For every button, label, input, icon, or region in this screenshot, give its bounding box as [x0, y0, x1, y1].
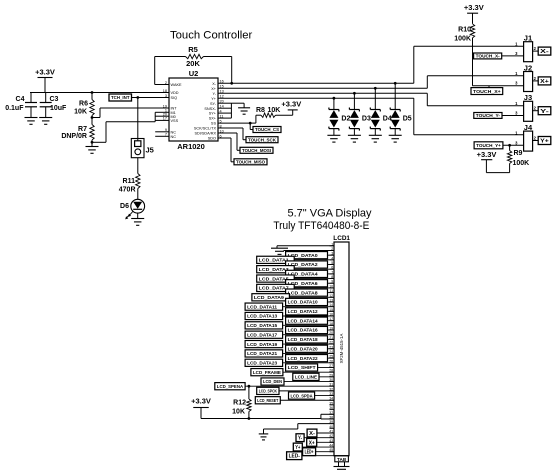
wire LCD_DATA12 — [328, 310, 335, 312]
node R12 bottom — [248, 417, 251, 420]
svg-text:LCD_DATA5: LCD_DATA5 — [259, 276, 289, 281]
svg-text:+3.3V: +3.3V — [281, 99, 301, 108]
diode D3 — [353, 92, 356, 95]
svg-text:10K: 10K — [268, 107, 281, 114]
wire J2 pin3 — [472, 85, 523, 87]
wire LCD_DATA13 — [283, 315, 334, 317]
wire LED+ (LCD) — [316, 451, 334, 453]
svg-text:TOUCH_CS: TOUCH_CS — [255, 127, 279, 132]
svg-text:VDD: VDD — [171, 91, 179, 95]
net label LCD_DATA17 — [245, 331, 283, 338]
net label LCD_DATA5 — [257, 275, 295, 282]
ground (D3) — [348, 134, 361, 136]
net label LCD_DEN — [261, 378, 284, 385]
terminal X- (J1) — [538, 47, 551, 55]
wire LCD_DEN — [284, 381, 334, 383]
svg-text:AR1020: AR1020 — [177, 142, 205, 151]
wire LCD_DATA7 — [294, 287, 334, 289]
svg-text:LCD_DATA22: LCD_DATA22 — [288, 356, 318, 361]
net label LCD_DATA11 — [245, 303, 283, 310]
svg-text:SNSX-: SNSX- — [204, 107, 216, 111]
svg-text:TOUCH_MISO: TOUCH_MISO — [236, 160, 265, 165]
wire LCD_SHIFT — [318, 366, 334, 368]
svg-text:J2: J2 — [524, 63, 532, 72]
svg-text:TOUCH_Y+: TOUCH_Y+ — [476, 143, 501, 148]
wire LCD_DATA15 — [283, 324, 334, 326]
svg-text:3: 3 — [515, 140, 518, 145]
svg-text:LED+: LED+ — [305, 450, 314, 456]
svg-text:LCD_DATA3: LCD_DATA3 — [259, 267, 289, 272]
wire X+ (LCD) — [317, 441, 334, 443]
svg-text:J4: J4 — [524, 123, 533, 132]
svg-text:3: 3 — [515, 51, 518, 56]
node R6/R7 junction — [91, 116, 94, 119]
wire LCD_DATA19 — [283, 343, 334, 345]
svg-text:C4: C4 — [16, 96, 25, 103]
wire X+ bus — [218, 87, 427, 89]
wire LCD_DATA16 — [328, 329, 335, 331]
net label LCD_DATA4 — [286, 270, 328, 277]
svg-text:+3.3V: +3.3V — [35, 68, 55, 77]
pin 2 (J1) — [533, 50, 539, 52]
svg-text:LCD_SPENA: LCD_SPENA — [217, 384, 244, 389]
svg-text:LCD_DATA8: LCD_DATA8 — [288, 290, 318, 295]
wire to J5 — [137, 98, 139, 141]
svg-text:J3: J3 — [524, 93, 532, 102]
resistor R6 — [91, 91, 94, 94]
svg-text:D5: D5 — [403, 116, 412, 123]
svg-text:LCD_DATA19: LCD_DATA19 — [247, 342, 277, 347]
connector LCD1 TAB — [335, 456, 349, 462]
node R9 tap — [508, 144, 511, 147]
svg-text:18: 18 — [163, 89, 167, 93]
svg-text:VSS: VSS — [171, 119, 179, 123]
wire TAB legs — [338, 462, 340, 467]
wire LCD_DATA21 — [283, 352, 334, 354]
net label LCD_FRAME — [251, 369, 283, 376]
wire LCD_DATA5 — [294, 278, 334, 280]
net label LCD_DATA6 — [286, 280, 328, 287]
svg-text:TCH_INT: TCH_INT — [111, 95, 130, 100]
svg-text:3: 3 — [515, 81, 518, 86]
svg-text:R6: R6 — [79, 101, 88, 108]
svg-text:J1: J1 — [524, 34, 532, 43]
svg-text:SIQ: SIQ — [171, 96, 178, 100]
svg-text:X-: X- — [212, 82, 217, 86]
svg-text:TAB: TAB — [337, 457, 347, 462]
svg-text:D4: D4 — [383, 116, 392, 123]
wire TOUCH_CS stub — [249, 123, 251, 129]
net label LCD_DATA19 — [245, 340, 283, 347]
wire R7 to VSS pins — [92, 141, 106, 143]
terminal Y- (J3) — [538, 107, 551, 115]
svg-text:3: 3 — [515, 111, 518, 116]
wire LCD_DATA0 — [328, 254, 335, 256]
terminal Y+ (J4) — [538, 137, 551, 145]
wire LCD_DATA1 — [294, 259, 334, 261]
svg-text:R9: R9 — [514, 150, 523, 157]
node J5 tap — [136, 96, 139, 99]
net label LCD_DATA13 — [245, 312, 283, 319]
ground (C3) — [39, 117, 52, 119]
wire LCD_DATA8 — [328, 292, 335, 294]
terminal X+ (J2) — [538, 77, 551, 85]
wire LCD_SPENA — [245, 385, 334, 387]
wire LCD_DATA11 — [283, 306, 334, 308]
svg-text:LCD_SHIFT: LCD_SHIFT — [288, 365, 316, 370]
svg-text:2: 2 — [534, 106, 537, 111]
ground (LCD pin39) — [259, 433, 269, 435]
svg-text:+3.3V: +3.3V — [477, 150, 497, 159]
svg-text:100K: 100K — [513, 160, 530, 167]
svg-text:SDI/SDA/RX: SDI/SDA/RX — [194, 132, 216, 136]
svg-text:LCD_DATA7: LCD_DATA7 — [259, 286, 289, 291]
resistor R8 — [261, 113, 276, 117]
svg-text:LCD_DATA14: LCD_DATA14 — [288, 318, 318, 323]
op-amp U2 body — [169, 78, 218, 141]
terminal LED- (LCD) — [287, 452, 302, 460]
wire WAKE stub — [155, 84, 169, 86]
net label TOUCH_MISO — [234, 159, 267, 165]
capacitor C4 — [30, 93, 32, 103]
svg-text:470R: 470R — [119, 186, 136, 193]
ground (R7) — [91, 142, 93, 146]
svg-text:TOUCH_X-: TOUCH_X- — [476, 54, 501, 59]
net label TOUCH_SCK — [246, 137, 278, 143]
wire J5 to R11 — [137, 158, 139, 174]
wire SCK — [218, 127, 243, 129]
svg-text:+3.3V: +3.3V — [464, 3, 484, 12]
connector J4 — [524, 131, 533, 151]
wire Y- bus — [218, 92, 427, 94]
svg-text:LED-: LED- — [289, 454, 301, 460]
connector J1 — [524, 42, 533, 62]
svg-text:SS: SS — [211, 122, 217, 126]
svg-text:Y+: Y+ — [211, 97, 217, 101]
resistor R12 — [248, 386, 250, 399]
connector LCD1 body — [334, 242, 349, 456]
net label LCD_DATA21 — [245, 350, 283, 357]
LED D6 — [131, 199, 145, 213]
svg-text:10uF: 10uF — [50, 105, 67, 112]
wire LCD_DATA10 — [328, 301, 335, 303]
node R12 tap — [248, 385, 251, 388]
wire SDI — [218, 132, 237, 134]
connector J5 — [131, 139, 144, 158]
svg-text:10K: 10K — [74, 108, 87, 115]
net label TOUCH_X+ — [471, 88, 503, 95]
diode D4 — [374, 87, 377, 90]
net label LCD_DATA22 — [286, 355, 328, 362]
svg-text:LCD_SPCK: LCD_SPCK — [259, 389, 278, 394]
svg-text:LCD1: LCD1 — [333, 235, 350, 242]
net label LCD_SPENA — [215, 383, 245, 390]
wire Y- (LCD) — [304, 437, 334, 439]
svg-text:LCD_DEN: LCD_DEN — [263, 379, 283, 384]
capacitor C3 — [45, 93, 47, 103]
net label LCD_DATA14 — [286, 317, 328, 324]
wire LCD_DATA3 — [294, 268, 334, 270]
wire NC stubs — [155, 131, 169, 133]
svg-text:SX+: SX+ — [209, 117, 217, 121]
wire Y+ riser to J4 — [413, 98, 415, 135]
net label LCD_DATA12 — [286, 308, 328, 315]
svg-text:LCD_DATA9: LCD_DATA9 — [254, 295, 284, 300]
svg-text:LCD_DATA23: LCD_DATA23 — [247, 361, 277, 366]
svg-text:LCD_DATA18: LCD_DATA18 — [288, 337, 318, 342]
svg-text:Truly TFT640480-8-E: Truly TFT640480-8-E — [273, 220, 369, 232]
node TOUCH_CS tap — [249, 122, 252, 125]
svg-text:1: 1 — [515, 41, 518, 46]
svg-text:Y+: Y+ — [295, 445, 300, 451]
wire LCD_DATA4 — [328, 273, 335, 275]
terminal X+ (LCD) — [307, 438, 317, 446]
svg-text:LCD_DATA16: LCD_DATA16 — [288, 328, 318, 333]
ground (LCD1 top) — [271, 247, 288, 249]
svg-text:Touch Controller: Touch Controller — [170, 30, 252, 42]
svg-text:TOUCH_X+: TOUCH_X+ — [473, 89, 501, 94]
wire LCD_DATA6 — [328, 282, 335, 284]
net label LCD_SHIFT — [286, 364, 318, 371]
svg-text:+3.3V: +3.3V — [191, 397, 211, 406]
net label LCD_LINE — [293, 373, 319, 380]
svg-text:TOUCH_Y-: TOUCH_Y- — [476, 113, 501, 118]
svg-text:LCD_FRAME: LCD_FRAME — [253, 370, 281, 375]
svg-text:LCD_DATA13: LCD_DATA13 — [247, 314, 277, 319]
svg-text:C3: C3 — [50, 96, 59, 103]
svg-text:D2: D2 — [341, 116, 350, 123]
net label LCD_DATA1 — [257, 256, 295, 263]
net label LCD_DATA23 — [245, 359, 283, 366]
wire X- (LCD) — [317, 432, 334, 434]
wire LCD_DATA17 — [283, 334, 334, 336]
svg-text:1: 1 — [515, 101, 518, 106]
ground (D6) — [131, 218, 144, 220]
svg-text:X-: X- — [309, 431, 315, 437]
svg-text:TOUCH_MOSI: TOUCH_MOSI — [242, 148, 271, 153]
svg-text:TOUCH_SCK: TOUCH_SCK — [248, 137, 277, 142]
svg-text:D3: D3 — [362, 116, 371, 123]
svg-text:NC: NC — [171, 135, 177, 139]
diode D5 — [394, 82, 397, 85]
net label TOUCH_CS — [253, 127, 281, 133]
connector J2 — [524, 72, 533, 92]
wire VSS bracket — [155, 111, 169, 113]
svg-text:Y-: Y- — [213, 92, 217, 96]
svg-text:R11: R11 — [123, 178, 136, 185]
wire Y- riser to J3 — [426, 93, 428, 106]
wire TCH_INT to SIQ pin — [132, 97, 170, 99]
net label TOUCH_Y- — [474, 113, 502, 119]
svg-text:Y-: Y- — [540, 109, 549, 115]
wire LCD_DATA22 — [328, 357, 335, 359]
net label LCD_DATA10 — [286, 298, 328, 305]
wire LED- (LCD) — [302, 455, 334, 457]
ground (D2) — [327, 134, 340, 136]
wire R6 junction to INT pin — [92, 117, 100, 119]
net label TOUCH_X- — [474, 53, 502, 59]
net label LCD_DATA3 — [257, 266, 295, 273]
svg-text:3: 3 — [165, 94, 167, 98]
wire LCD_DATA20 — [328, 348, 335, 350]
wire SNS bracket — [218, 102, 231, 104]
net label LCD_RESET — [255, 397, 280, 404]
svg-text:5.7" VGA Display: 5.7" VGA Display — [288, 208, 372, 220]
svg-text:40: 40 — [329, 425, 333, 429]
net label LCD_DATA15 — [245, 322, 283, 329]
net label LCD_SPCK — [257, 387, 279, 394]
svg-text:XF2M-4515-1A: XF2M-4515-1A — [339, 334, 344, 364]
svg-text:D6: D6 — [120, 203, 129, 210]
wire pin39 to gnd — [298, 423, 334, 425]
terminal X- (LCD) — [307, 429, 317, 437]
net label LCD_DATA20 — [286, 345, 328, 352]
svg-text:R8: R8 — [256, 107, 265, 114]
net label TOUCH_MOSI — [240, 147, 273, 153]
net label LCD_DATA18 — [286, 336, 328, 343]
svg-text:R5: R5 — [188, 45, 198, 54]
svg-text:R10: R10 — [458, 26, 471, 33]
net label LCD_DATA0 — [286, 252, 328, 259]
ground (TAB) — [334, 466, 350, 468]
wire J4 pin3 — [503, 144, 524, 146]
svg-text:LCD_DATA21: LCD_DATA21 — [247, 351, 277, 356]
wire LCD_FRAME — [283, 371, 334, 373]
svg-text:SCK/SCL/TX: SCK/SCL/TX — [194, 127, 217, 131]
svg-text:LCD_DATA15: LCD_DATA15 — [247, 323, 277, 328]
resistor R9 — [509, 145, 511, 150]
svg-text:2: 2 — [534, 76, 537, 81]
wire +3.3V rail to pins 37-38 — [201, 418, 321, 420]
ground (C4) — [25, 117, 38, 119]
svg-text:LCD_DATA17: LCD_DATA17 — [247, 332, 277, 337]
resistor R11 — [136, 174, 140, 189]
svg-text:LCD_DATA10: LCD_DATA10 — [288, 300, 318, 305]
diode D2 — [333, 97, 336, 100]
svg-text:U2: U2 — [189, 69, 199, 78]
wire J1 pin3 — [502, 55, 524, 57]
net label LCD_DATA8 — [286, 289, 328, 296]
wire X+ riser to J2 — [426, 76, 428, 89]
wire LCD_DATA14 — [328, 320, 335, 322]
wire J3 pin3 — [502, 115, 524, 117]
svg-text:Y-: Y- — [298, 436, 302, 442]
wire LCD_DATA2 — [328, 264, 335, 266]
svg-text:10K: 10K — [232, 409, 245, 416]
svg-text:36: 36 — [329, 406, 333, 410]
wire SS to R8 — [218, 122, 250, 124]
net label LCD_SPDA — [289, 392, 315, 399]
wire SDO — [218, 137, 231, 139]
svg-text:LCD_DATA20: LCD_DATA20 — [288, 346, 318, 351]
wire LCD pins 1-2 gnd — [277, 245, 334, 247]
ground (D4) — [369, 134, 382, 136]
resistor R10 — [470, 24, 474, 38]
pin 2 (J2) — [533, 80, 539, 82]
svg-text:X+: X+ — [309, 440, 315, 446]
svg-text:R7: R7 — [78, 126, 87, 133]
svg-text:LCD_LINE: LCD_LINE — [295, 375, 317, 380]
svg-text:LCD_RESET: LCD_RESET — [257, 398, 278, 403]
terminal Y- (LCD) — [296, 434, 304, 442]
svg-text:R12: R12 — [233, 400, 246, 407]
svg-text:2: 2 — [534, 136, 537, 141]
wire X- bus — [218, 82, 414, 84]
svg-text:LCD_DATA1: LCD_DATA1 — [259, 258, 289, 263]
pin 2 (J4) — [533, 140, 539, 142]
wire LCD_DATA9 — [289, 296, 334, 298]
svg-text:100K: 100K — [454, 36, 471, 43]
wire LCD_RESET — [280, 399, 334, 401]
svg-text:0.1uF: 0.1uF — [5, 105, 24, 112]
svg-text:SY-: SY- — [210, 102, 217, 106]
resistor R5 — [154, 57, 156, 85]
pin 2 (J3) — [533, 110, 539, 112]
ground (SNS) — [243, 103, 245, 108]
svg-text:X-: X- — [540, 49, 549, 55]
svg-text:LCD_DATA11: LCD_DATA11 — [247, 304, 277, 309]
wire VDD rail — [30, 92, 169, 94]
svg-text:35: 35 — [329, 401, 333, 405]
net label TCH_INT — [109, 94, 132, 101]
ground (D5) — [389, 134, 402, 136]
node R5/X- junction — [230, 82, 233, 85]
net label LCD_DATA7 — [257, 284, 295, 291]
LCD1 pins 1-45 — [330, 245, 335, 247]
svg-text:LCD_DATA12: LCD_DATA12 — [288, 309, 318, 314]
svg-text:NC: NC — [171, 130, 177, 134]
svg-text:SDO: SDO — [208, 137, 216, 141]
wire LCD_LINE — [319, 376, 334, 378]
wire Y+ (LCD) — [302, 446, 334, 448]
svg-text:Y+: Y+ — [540, 139, 549, 145]
wire LCD_DATA23 — [283, 362, 334, 364]
wire LCD_DATA18 — [328, 338, 335, 340]
wire LCD_SPCK — [279, 390, 334, 392]
wire Y+ bus — [218, 97, 414, 99]
svg-text:LCD_SPDA: LCD_SPDA — [291, 393, 314, 398]
net label LCD_DATA9 — [252, 294, 290, 301]
svg-text:WAKE: WAKE — [171, 83, 183, 87]
svg-text:X+: X+ — [211, 87, 217, 91]
resistor R7 — [91, 118, 93, 125]
svg-text:20K: 20K — [186, 59, 200, 68]
node R7 bottom junction — [91, 141, 94, 144]
svg-text:SY+: SY+ — [209, 112, 217, 116]
terminal LED+ (LCD) — [303, 448, 316, 456]
svg-text:X+: X+ — [540, 79, 549, 85]
net label TOUCH_Y+ — [474, 142, 503, 149]
power +3.3V (R8) — [292, 110, 294, 115]
net label LCD_DATA2 — [286, 261, 328, 268]
svg-text:DNP/0R: DNP/0R — [61, 133, 87, 140]
terminal Y+ (LCD) — [293, 443, 302, 451]
wire LCD_SPDA — [315, 395, 334, 397]
svg-text:J5: J5 — [146, 146, 154, 155]
svg-text:2: 2 — [534, 46, 537, 51]
net label LCD_DATA16 — [286, 326, 328, 333]
connector J3 — [524, 101, 533, 121]
wire X- riser to J1 — [413, 46, 415, 83]
